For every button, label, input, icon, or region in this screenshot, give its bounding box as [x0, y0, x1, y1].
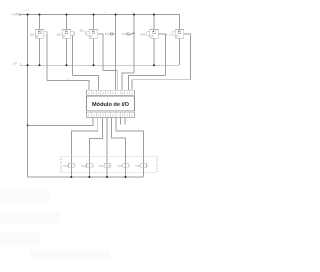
wire valve common rail — [28, 176, 144, 178]
node junction dot rail/Y2 — [88, 176, 90, 178]
wire module output to valve Y5 — [116, 117, 144, 177]
svg-text:1S1: 1S1 — [105, 32, 111, 36]
svg-text:F_1: F_1 — [166, 32, 172, 36]
wire module output to valve Y2 — [89, 117, 102, 177]
valve group dashed box — [61, 157, 157, 173]
svg-text:+24V: +24V — [12, 13, 21, 17]
svg-text:2B2: 2B2 — [140, 32, 146, 36]
reed switch S1 — [105, 14, 117, 91]
valve solenoid Y3 — [98, 163, 111, 168]
scan smudges bottom left — [0, 190, 110, 258]
wire signal B4 to module pin 9 — [128, 76, 165, 91]
svg-text:0V: 0V — [13, 62, 18, 66]
wire module output to valve Y4 — [112, 117, 126, 177]
wire module 0V return to supply drop — [28, 117, 94, 125]
tick 0V bus start — [19, 63, 21, 65]
sensor B3 — [80, 14, 103, 71]
wire supply drop x27.5 from rail to bottom rail — [27, 15, 29, 178]
svg-text:Módulo de I/O: Módulo de I/O — [92, 101, 130, 108]
node junction dot rail/supply — [27, 13, 29, 15]
svg-text:=C2: =C2 — [135, 164, 141, 168]
svg-text:1S2: 1S2 — [121, 32, 127, 36]
node junction dot rail/Y1 — [70, 176, 72, 178]
module U1 I/O module — [87, 90, 135, 117]
svg-text:2B1: 2B1 — [80, 28, 86, 32]
valve solenoid Y1 — [63, 163, 76, 168]
wire +24V rail with corner into sensor B5 feed — [20, 15, 180, 30]
svg-text:=C2: =C2 — [98, 164, 104, 168]
stub unused pin 8 — [120, 117, 122, 124]
stub unused pin 9 — [124, 117, 126, 124]
node junction dot bus/supply — [27, 64, 29, 66]
wire module output to valve Y1 — [71, 117, 97, 177]
valve solenoid Y5 — [135, 163, 148, 168]
terminal strip top — [87, 90, 135, 95]
wire 0V bus — [20, 64, 179, 66]
valve solenoid Y4 — [117, 163, 130, 168]
sensor B4 — [140, 14, 165, 76]
wire signal S2 to module pin 8 — [122, 73, 134, 90]
terminal strip bottom — [87, 112, 135, 118]
wire signal B1 to module pin 1 — [47, 81, 89, 91]
svg-text:1L+: 1L+ — [25, 9, 30, 12]
sensor B1 — [29, 14, 47, 81]
module body — [87, 96, 135, 111]
svg-text:=C2: =C2 — [117, 164, 123, 168]
wire signal B5 to module pin 10 — [132, 80, 191, 91]
node junction dot rail/Y4 — [125, 176, 127, 178]
wire signal B3 to module pin 7 — [103, 70, 117, 90]
sensor B5 — [166, 29, 191, 79]
svg-text:1B1: 1B1 — [29, 32, 35, 36]
svg-text:1B2: 1B2 — [56, 32, 62, 36]
svg-text:=C2: =C2 — [63, 164, 69, 168]
node junction dot supply/module-0V branch — [27, 124, 29, 126]
wire module output to valve Y3 — [106, 117, 108, 177]
sensor B2 — [56, 14, 74, 76]
wire signal B2 to module pin 3 — [72, 76, 98, 91]
node junction dot rail/Y3 — [106, 176, 108, 178]
valve solenoid Y2 — [81, 163, 94, 168]
svg-text:=C2: =C2 — [81, 164, 87, 168]
reed switch S2 — [121, 14, 135, 73]
